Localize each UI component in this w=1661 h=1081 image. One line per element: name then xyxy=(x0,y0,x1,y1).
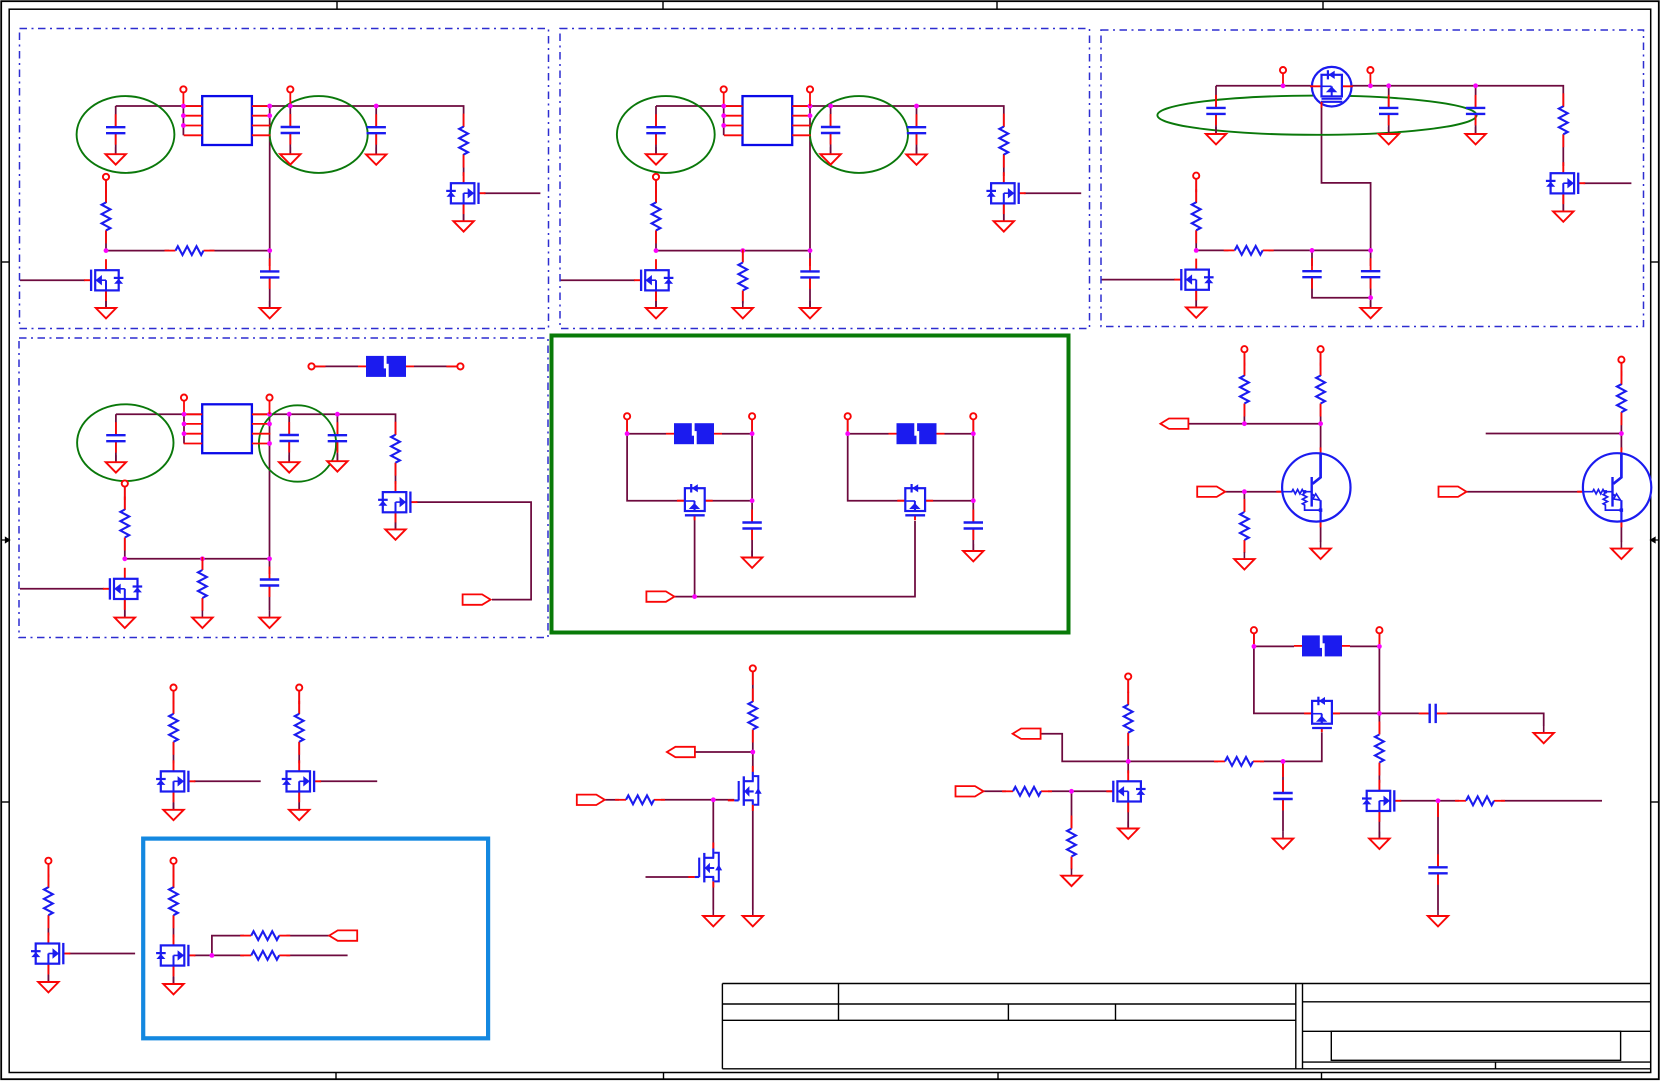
wire C12 bottom link xyxy=(1312,277,1371,298)
port VMON xyxy=(1125,673,1131,693)
ground C19 xyxy=(963,544,983,561)
wire feedback link xyxy=(1041,734,1129,762)
ground C16 xyxy=(327,454,347,471)
ground Q15 xyxy=(163,977,183,994)
port T1 base in xyxy=(1197,487,1225,497)
wire Q3 source link xyxy=(655,290,657,308)
port LS out xyxy=(667,747,695,757)
resistor R1 xyxy=(102,189,111,243)
mosfet Q7 xyxy=(1174,259,1213,301)
node C3 xyxy=(374,104,379,109)
node VIN3 xyxy=(1281,83,1286,88)
resistor R18 xyxy=(295,701,304,755)
wire C2 top xyxy=(289,104,291,128)
port pulldown 3 xyxy=(45,858,51,878)
annotation circle around C2 xyxy=(270,96,368,173)
resistor R26 xyxy=(1067,816,1076,870)
wire output rail block3 xyxy=(1342,86,1563,107)
wire Q10 gate down xyxy=(694,515,696,596)
node gate div xyxy=(1281,759,1286,764)
resistor R29 xyxy=(1455,796,1505,805)
wire F4 left xyxy=(1254,633,1294,646)
wire EN4 link xyxy=(124,487,126,511)
mosfet Q16 xyxy=(728,766,762,811)
wire T2 collector drop xyxy=(1620,434,1622,451)
node U3 pin bus xyxy=(182,412,187,417)
node FB2 left xyxy=(654,248,659,253)
wire Q8 gate to port xyxy=(416,502,531,599)
port VIN1 xyxy=(180,86,186,106)
wire Q19 source link xyxy=(1378,811,1380,839)
resistor R21 xyxy=(240,931,290,940)
node VOUT2 xyxy=(828,104,833,109)
wire C18 top xyxy=(751,501,753,523)
ground Q19 xyxy=(1369,832,1389,849)
mosfet Q17 xyxy=(688,843,722,888)
wire R16 down xyxy=(1620,412,1622,433)
resistor R9 xyxy=(1224,246,1274,255)
wire R20 to Q15 xyxy=(173,915,175,937)
wire C19 top xyxy=(972,501,974,523)
wire R12 top stub xyxy=(201,559,203,570)
wire Q9 gate xyxy=(20,588,104,590)
mosfet Q20 xyxy=(1106,770,1145,812)
resistor R20 xyxy=(169,874,178,928)
port F4 right xyxy=(1376,627,1382,647)
wire C22 to ground xyxy=(1282,799,1284,832)
node FB4 right xyxy=(267,556,272,561)
capacitor C13 xyxy=(1361,258,1380,289)
port pullup LS xyxy=(750,665,756,685)
ground C2 xyxy=(280,147,300,164)
green annotation box xyxy=(552,336,1069,633)
power block 2 border xyxy=(560,29,1090,329)
node reset xyxy=(1069,789,1074,794)
wire switch A source xyxy=(705,500,752,502)
fuse F2 xyxy=(666,423,722,445)
resistor R10 xyxy=(120,497,129,551)
node gate row A xyxy=(692,594,697,599)
frame left ticks xyxy=(1,262,9,802)
ground C20 xyxy=(1534,726,1554,743)
ground C6 xyxy=(820,147,840,164)
ground Q13 xyxy=(289,803,309,820)
wire Q3 gate xyxy=(560,279,635,281)
mosfet Q12 xyxy=(156,760,195,802)
fuse F4 xyxy=(1294,635,1350,657)
wire A out down xyxy=(751,434,753,501)
wire R12 to ground xyxy=(201,598,203,611)
wire R17 to Q12 xyxy=(173,742,175,764)
wire C19 ground link xyxy=(972,529,974,552)
ground C15 xyxy=(279,455,299,472)
wire C14 top xyxy=(115,414,117,435)
ground C21 xyxy=(1428,909,1448,926)
wire R15 top stub xyxy=(1243,492,1245,512)
node switch B out xyxy=(971,498,976,503)
wire F1 right xyxy=(414,365,457,367)
annotation circle around C14 xyxy=(77,404,173,481)
wire Q20 source link xyxy=(1127,802,1129,829)
wire C16 top xyxy=(336,414,338,435)
node T1 base xyxy=(1242,489,1247,494)
wire U3 left bus xyxy=(183,412,185,443)
wire C21 top xyxy=(1437,801,1439,868)
wire T2 collector row xyxy=(1486,433,1622,435)
resistor R4 xyxy=(652,189,661,243)
wire T1 emitter xyxy=(1320,522,1322,542)
node comp left xyxy=(1194,248,1199,253)
capacitor C14 xyxy=(106,422,125,453)
wire C2 ground link xyxy=(289,133,291,154)
wire C6 top xyxy=(830,106,832,128)
wire comp row block3 xyxy=(1196,249,1228,251)
port VIN4 xyxy=(181,395,187,415)
power block 3 border xyxy=(1101,30,1644,327)
mosfet Q3 xyxy=(634,259,673,301)
wire U3 right bus xyxy=(269,414,271,559)
wire R19 to Q14 xyxy=(47,915,49,935)
annotation circle around C1 xyxy=(77,96,175,173)
node LS out xyxy=(750,750,755,755)
ground C3 xyxy=(366,147,386,164)
node T2 row xyxy=(1619,431,1624,436)
wire R18 to Q13 xyxy=(298,742,300,764)
port LS in xyxy=(577,795,605,805)
ground C18 xyxy=(742,551,762,568)
capacitor C16 xyxy=(328,422,347,453)
port VOUT2 xyxy=(807,86,813,106)
wire VIN top rail block2 xyxy=(656,105,831,107)
port pullup T1b xyxy=(1318,346,1324,366)
wire LS drain xyxy=(752,752,754,772)
annotation circle around C6 xyxy=(810,96,908,173)
resistor R22 xyxy=(240,951,290,960)
ground Q12 xyxy=(163,803,183,820)
wire F3 left xyxy=(848,419,889,434)
mosfet Q6 xyxy=(1546,162,1585,204)
node T1 row a xyxy=(1242,421,1247,426)
resistor R16 xyxy=(1617,371,1626,425)
wire switch A drain xyxy=(627,434,685,501)
wire C9 drop xyxy=(1215,86,1217,108)
node Q19 gate xyxy=(1436,798,1441,803)
port EN1 xyxy=(103,174,109,194)
wire VOUT rail block4 xyxy=(289,414,395,435)
wire sense branch right xyxy=(286,935,329,937)
regulator U1 xyxy=(184,96,271,145)
port feedback out xyxy=(1013,729,1041,739)
wire Q4 source link xyxy=(1003,203,1005,221)
node C16 xyxy=(335,412,340,417)
wire comp row block3 right xyxy=(1269,249,1371,251)
ground Q2 xyxy=(453,214,473,231)
ground C1 xyxy=(106,147,126,164)
wire reset row right xyxy=(1048,790,1112,792)
node F4 right xyxy=(1377,644,1382,649)
ground Q14 xyxy=(38,975,58,992)
wire R1 to node FB1 xyxy=(105,230,107,250)
wire Q15 source link xyxy=(173,966,175,984)
wire Q6 source link xyxy=(1562,193,1564,211)
transistor T1 xyxy=(1276,447,1350,527)
wire C8 ground link xyxy=(809,277,811,308)
node VOUT4 xyxy=(287,412,292,417)
frame right center arrow xyxy=(1651,538,1659,543)
node F3 left xyxy=(845,431,850,436)
wire Q9 source link xyxy=(124,599,126,618)
regulator U2 xyxy=(724,96,811,145)
wire EN3 link xyxy=(1195,179,1197,203)
wire VIN top rail block1 xyxy=(116,105,291,107)
annotation circle around C15 xyxy=(259,405,336,481)
wire C18 ground link xyxy=(751,529,753,558)
node VMON div xyxy=(1126,759,1131,764)
mosfet Q8 xyxy=(378,481,417,523)
wire T1b link xyxy=(1320,352,1322,376)
node C7 xyxy=(914,104,919,109)
wire Q13 source link xyxy=(298,792,300,810)
port VOUT3 xyxy=(1367,67,1373,87)
wire F1 left xyxy=(315,365,359,367)
wire Q12 source link xyxy=(173,792,175,810)
wire R28 to Q19 xyxy=(1378,763,1380,783)
mosfet Q10 xyxy=(677,484,713,520)
ground C9 xyxy=(1206,127,1226,144)
wire U2 left bus xyxy=(723,104,725,135)
wire Q19 gate row xyxy=(1400,800,1459,802)
wire C22 red stub xyxy=(1282,761,1284,777)
wire sense branch xyxy=(212,936,244,956)
wire C21 red stub xyxy=(1437,801,1439,817)
ground C4 xyxy=(260,301,280,318)
wire C11 top xyxy=(1475,86,1477,108)
port F1 right xyxy=(446,363,463,369)
wire FB row block1 right xyxy=(210,250,270,252)
ground T2 xyxy=(1611,542,1631,559)
regulator U3 xyxy=(184,404,271,453)
wire FB row block2 xyxy=(656,250,810,252)
power block 4 border xyxy=(19,338,548,638)
resistor R11 xyxy=(391,422,400,476)
wire C20 to ground xyxy=(1436,713,1544,726)
resistor R6 xyxy=(738,250,747,304)
port pulldown 1 xyxy=(170,685,176,705)
ground R6 xyxy=(733,301,753,318)
wire C20 link xyxy=(1379,712,1429,714)
capacitor C5 xyxy=(646,114,665,145)
mosfet Q11 xyxy=(897,484,933,520)
wire divider row xyxy=(1128,760,1218,762)
mosfet Q13 xyxy=(282,760,321,802)
wire U2 right bus xyxy=(809,106,811,251)
ground R12 xyxy=(192,611,212,628)
mosfet Q5 in circle xyxy=(1310,67,1353,108)
wire Q18 source xyxy=(1332,712,1380,714)
node C13 bottom xyxy=(1368,295,1373,300)
wire C12 top link xyxy=(1311,250,1313,266)
node F2 right xyxy=(750,431,755,436)
transistor T2 xyxy=(1577,447,1651,527)
wire pd4 link xyxy=(173,864,175,888)
port VIN3 xyxy=(1280,67,1286,87)
wire B out down xyxy=(972,434,974,501)
resistor R2 xyxy=(459,114,468,168)
wire T2 link xyxy=(1620,363,1622,385)
port T1 collector out xyxy=(1160,419,1188,429)
wire R26 to ground xyxy=(1071,857,1073,870)
wire C5 top xyxy=(655,106,657,128)
ground T1 xyxy=(1310,542,1330,559)
ground C17 xyxy=(259,611,279,628)
wire pd2 link xyxy=(298,691,300,714)
wire C17 top link xyxy=(269,559,271,574)
wire C14 ground link xyxy=(115,441,117,462)
resistor R14 xyxy=(1316,363,1325,417)
wire F3 right xyxy=(945,419,974,434)
wire C10 ground link xyxy=(1388,114,1390,134)
wire VMON link xyxy=(1127,680,1129,706)
ground C14 xyxy=(106,455,126,472)
wire R15 to ground xyxy=(1243,540,1245,552)
wire EN2 link xyxy=(655,180,657,203)
wire T2 base xyxy=(1467,491,1582,493)
wire F4 right xyxy=(1350,633,1379,646)
wire Q4 gate xyxy=(1024,192,1081,194)
wire C3 top xyxy=(375,106,377,128)
wire R13 down xyxy=(1243,404,1245,424)
wire switch B drain xyxy=(848,434,906,501)
resistor R28 xyxy=(1375,722,1384,776)
capacitor C11 xyxy=(1466,95,1485,126)
capacitor C21 xyxy=(1428,854,1447,885)
ground Q6 xyxy=(1553,204,1573,221)
resistor R8 xyxy=(1559,93,1568,147)
ground Q16 xyxy=(743,909,763,926)
wire C9 ground link xyxy=(1215,114,1217,134)
port EN2 xyxy=(653,174,659,194)
resistor R12 xyxy=(198,557,207,611)
wire divider row right xyxy=(1260,760,1283,762)
wire pd1 link xyxy=(173,691,175,714)
port switch enable xyxy=(646,591,674,601)
resistor R30 xyxy=(1214,757,1264,766)
wire LS in row xyxy=(605,799,619,801)
wire Q5 gate path xyxy=(1322,106,1371,250)
wire R4 to node FB2 xyxy=(655,230,657,250)
wire C15 ground link xyxy=(288,441,290,462)
wire R14 down xyxy=(1320,404,1322,424)
power block 1 border xyxy=(20,29,549,329)
wire pd3 link xyxy=(47,864,49,888)
resistor R25 xyxy=(1002,787,1052,796)
wire C13 bottom link xyxy=(1370,277,1372,308)
wire F2 left xyxy=(627,419,666,434)
resistor R13 xyxy=(1240,363,1249,417)
wire R7 to comp row xyxy=(1195,230,1197,250)
ground R26 xyxy=(1061,869,1081,886)
wire Q8 source link xyxy=(395,512,397,529)
ground C8 xyxy=(800,301,820,318)
wire C1 top xyxy=(115,106,117,128)
wire T1 collector drop xyxy=(1320,424,1322,450)
ground Q17 xyxy=(703,909,723,926)
resistor R15 xyxy=(1240,499,1249,553)
node FB2 right xyxy=(808,248,813,253)
mosfet Q2 xyxy=(446,172,485,214)
mosfet Q14 xyxy=(31,933,70,975)
ground Q4 xyxy=(994,214,1014,231)
resistor R27 xyxy=(1124,692,1133,746)
ground C10 xyxy=(1379,127,1399,144)
frame left center arrow xyxy=(1,538,9,543)
capacitor C3 xyxy=(367,114,386,145)
wire LS out row xyxy=(695,751,753,753)
wire T1 base xyxy=(1225,491,1281,493)
wire C22 top xyxy=(1282,761,1284,793)
node Q15 gate xyxy=(210,953,215,958)
wire VOUT rail block1 xyxy=(290,106,463,127)
node VSW xyxy=(1377,711,1382,716)
node T1 row b xyxy=(1318,421,1323,426)
node FB1 left xyxy=(104,248,109,253)
ground C5 xyxy=(646,147,666,164)
wire C3 ground link xyxy=(375,133,377,154)
wire FB row block1 xyxy=(106,250,169,252)
port pulldown 2 xyxy=(296,685,302,705)
port switch B out xyxy=(970,413,976,433)
node F2 left xyxy=(625,431,630,436)
wire LS in row right xyxy=(661,799,734,801)
frame right ticks xyxy=(1651,262,1659,802)
wire R27 down xyxy=(1127,733,1129,762)
capacitor C1 xyxy=(106,114,125,145)
wire Q2 source link xyxy=(463,203,465,221)
wire R23 down xyxy=(752,730,754,753)
port pullup T2 xyxy=(1618,357,1624,377)
capacitor C22 xyxy=(1273,780,1292,811)
wire Q14 source link xyxy=(47,964,49,982)
capacitor C18 xyxy=(742,510,761,541)
fuse F3 xyxy=(889,423,945,445)
wire gate row xyxy=(674,521,915,597)
capacitor C12 xyxy=(1302,258,1321,289)
ground Q8 xyxy=(385,522,405,539)
node comp mid xyxy=(1310,248,1315,253)
node FB4 left xyxy=(122,556,127,561)
ground Q20 xyxy=(1118,822,1138,839)
wire Q16 source to ground xyxy=(752,805,754,910)
node LS gate xyxy=(711,797,716,802)
wire U1 left bus xyxy=(182,104,184,135)
wire C10 top xyxy=(1388,86,1390,108)
wire Q15 gate row right xyxy=(286,954,347,956)
ground Q3 xyxy=(646,301,666,318)
wire C8 top link xyxy=(809,251,811,266)
capacitor C19 xyxy=(964,510,983,541)
node VOUT3 xyxy=(1368,83,1373,88)
capacitor C9 xyxy=(1206,95,1225,126)
annotation circle around C5 xyxy=(617,96,715,173)
port switch A in xyxy=(624,413,630,433)
node F3 right xyxy=(971,431,976,436)
ground C7 xyxy=(906,147,926,164)
port VOUT4 xyxy=(266,395,272,415)
capacitor C4 xyxy=(260,258,279,289)
capacitor C10 xyxy=(1379,95,1398,126)
wire Q17 gate stub xyxy=(646,876,695,878)
wire T2 emitter xyxy=(1620,522,1622,542)
